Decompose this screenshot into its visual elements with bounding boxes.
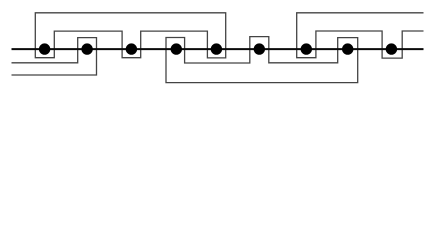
wire loop A (weaves at dots 1,3,5): top arc y13, mid arcs y31, under-caps	[35, 13, 225, 58]
node 6	[254, 43, 265, 54]
node 5	[211, 43, 222, 54]
node 8	[342, 43, 353, 54]
wire loop B (weaves at dots 4,6,8): over-caps and bottom arcs y63/y82.6	[166, 37, 358, 83]
wire strand D (enters right, hooks under dots 7 and 9)	[297, 13, 424, 58]
node 2	[81, 43, 92, 54]
node 4	[171, 43, 182, 54]
node 7	[301, 43, 312, 54]
node 3	[126, 43, 137, 54]
node 9	[386, 43, 397, 54]
node 1	[39, 43, 50, 54]
wire: main horizontal strand	[12, 48, 424, 50]
knot/meander diagram: horizontal strand with 9 crossings	[0, 0, 437, 98]
wire strand C (enters left, hooks over dot 2)	[12, 38, 97, 75]
